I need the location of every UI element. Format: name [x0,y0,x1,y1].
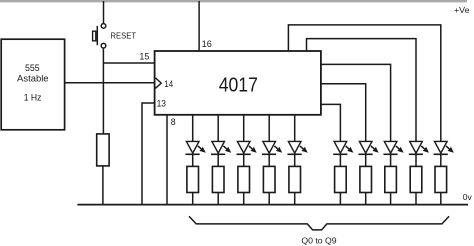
resistor: LED 8 current limit [385,166,397,192]
svg-text:1 Hz: 1 Hz [24,93,42,103]
wire: LED 8 cathode to resistor [390,154,392,166]
wire: LED 9 cathode to resistor [415,154,417,166]
wire: 4017 output Q1 to LED [217,115,219,142]
LED 1 (output Q0) [186,141,206,154]
LED 6 (output Q5) [333,141,353,154]
+Ve supply rail [0,0,467,2]
wire: resistor 10 to 0V rail [440,193,442,205]
svg-text:4017: 4017 [219,74,258,96]
brace: outputs Q0 to Q9 [189,216,449,230]
push-button switch RESET [93,24,106,48]
wire: pin 13 to 0V rail [142,103,155,205]
wire: 4017 output Q6 to LED [321,84,366,142]
resistor: LED 9 current limit [410,166,422,192]
wire: 4017 output Q8 to LED [307,39,417,142]
wire: RESET switch to reset node [102,48,104,134]
resistor: LED 4 current limit [263,166,275,192]
LED 4 (output Q3) [262,141,282,154]
wire: resistor 8 to 0V rail [390,193,392,205]
svg-text:16: 16 [202,39,212,49]
wire: 4017 output Q4 to LED [294,115,296,142]
resistor: LED 2 current limit [212,166,224,192]
wire: +Ve rail to RESET switch [103,1,105,24]
clock input triangle pin 14 [156,78,162,88]
svg-text:RESET: RESET [111,32,137,41]
svg-text:13: 13 [157,99,166,109]
resistor: LED 5 current limit [289,166,301,192]
wire: resistor 5 to 0V rail [294,193,296,205]
wire: 4017 output Q9 to LED [288,25,440,142]
wire: LED 6 cathode to resistor [339,154,341,166]
wire: reset resistor to 0V rail [102,166,104,205]
wire: LED 3 cathode to resistor [243,154,245,166]
wire: resistor 7 to 0V rail [365,193,367,205]
svg-text:0v: 0v [463,192,473,202]
wire: LED 1 cathode to resistor [192,154,194,166]
svg-text:14: 14 [164,79,173,89]
svg-text:8: 8 [171,117,176,127]
555 astable multivibrator block [1,39,64,130]
IC 4017 decade counter [155,51,321,115]
wire: LED 5 cathode to resistor [294,154,296,166]
wire: resistor 6 to 0V rail [339,193,341,205]
wire: 4017 output Q0 to LED [192,115,194,142]
wire: 4017 output Q2 to LED [243,115,245,142]
wire: reset node to pin 15 [103,62,154,64]
wire: pin 8 to 0V rail [166,115,168,205]
wire: resistor 4 to 0V rail [268,193,270,205]
svg-text:+Ve: +Ve [454,5,470,15]
wire: pin 16 to +Ve rail [198,1,200,51]
LED 9 (output Q8) [409,141,429,154]
resistor: LED 3 current limit [238,166,250,192]
resistor: LED 10 current limit [435,166,447,192]
wire: LED 4 cathode to resistor [268,154,270,166]
0V supply rail [77,204,468,206]
wire: 4017 output Q3 to LED [268,115,270,142]
svg-text:15: 15 [139,52,149,62]
wire: 4017 output Q5 to LED [321,104,341,141]
LED 3 (output Q2) [237,141,257,154]
wire: resistor 9 to 0V rail [415,193,417,205]
resistor: reset pull-down [97,134,109,166]
wire: resistor 3 to 0V rail [243,193,245,205]
svg-text:Q0 to Q9: Q0 to Q9 [301,235,337,245]
LED 2 (output Q1) [211,141,231,154]
LED 5 (output Q4) [288,141,308,154]
resistor: LED 1 current limit [187,166,199,192]
wire: LED 7 cathode to resistor [365,154,367,166]
resistor: LED 6 current limit [335,166,347,192]
wire: resistor 2 to 0V rail [217,193,219,205]
wire: resistor 1 to 0V rail [192,193,194,205]
LED 8 (output Q7) [383,141,403,154]
wire: 4017 output Q7 to LED [321,64,391,141]
wire: LED 2 cathode to resistor [217,154,219,166]
wire: 555 output to 4017 clock pin 14 [65,82,155,84]
wire: LED 10 cathode to resistor [440,154,442,166]
svg-text:Astable: Astable [17,73,49,83]
LED 10 (output Q9) [434,141,454,154]
LED 7 (output Q6) [359,141,379,154]
svg-text:555: 555 [25,63,40,73]
resistor: LED 7 current limit [360,166,372,192]
